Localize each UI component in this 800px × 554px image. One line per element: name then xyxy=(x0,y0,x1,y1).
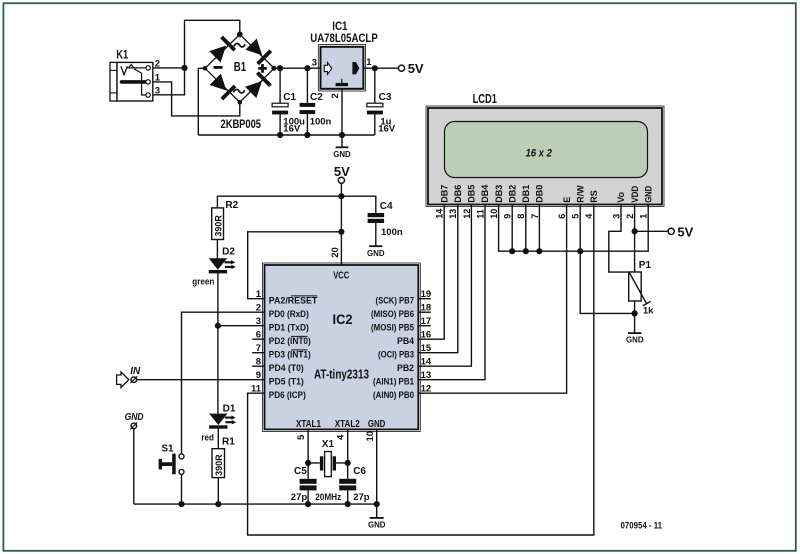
wire P1 bottom to ground xyxy=(634,301,636,333)
svg-text:(SCK) PB7: (SCK) PB7 xyxy=(376,295,415,305)
wire IC2 pin16 PB4 to LCD DB7 xyxy=(418,205,444,340)
wire B1 minus to ground rail xyxy=(198,68,205,135)
svg-text:GND: GND xyxy=(643,185,653,202)
svg-text:RS: RS xyxy=(589,190,599,203)
capacitor C6 xyxy=(339,466,370,503)
svg-text:1: 1 xyxy=(155,73,161,84)
svg-text:7: 7 xyxy=(530,214,540,219)
svg-text:R/W: R/W xyxy=(575,185,585,203)
wire IC2 pin11 PD6 to LCD RS xyxy=(248,205,594,536)
svg-text:4: 4 xyxy=(584,214,594,219)
microcontroller IC2 xyxy=(251,247,432,441)
ground below P1 xyxy=(626,333,644,345)
svg-text:GND: GND xyxy=(368,519,386,529)
svg-text:16V: 16V xyxy=(378,124,396,135)
svg-text:XTAL2: XTAL2 xyxy=(335,418,360,430)
svg-text:C4: C4 xyxy=(380,201,393,212)
svg-text:PD4 (T0): PD4 (T0) xyxy=(269,363,304,373)
svg-text:GND: GND xyxy=(367,248,385,258)
svg-text:3: 3 xyxy=(256,316,261,327)
svg-text:19: 19 xyxy=(421,289,432,300)
wire LCD R/W to P1 ground node xyxy=(580,205,634,314)
capacitor C2 xyxy=(300,92,332,127)
svg-text:PD6 (ICP): PD6 (ICP) xyxy=(269,390,306,400)
svg-text:5V: 5V xyxy=(334,164,350,179)
svg-text:IC1: IC1 xyxy=(332,19,347,33)
wire IC2 pin12 PB0 to LCD E xyxy=(418,205,566,394)
resistor R1 xyxy=(212,437,235,478)
wire LCD DB2 lead xyxy=(511,205,513,252)
wire IC1 pin2 to ground xyxy=(341,89,343,148)
svg-text:14: 14 xyxy=(421,357,432,368)
svg-text:1: 1 xyxy=(256,289,262,300)
svg-text:15: 15 xyxy=(421,343,432,354)
svg-text:6: 6 xyxy=(557,214,567,219)
svg-text:IN: IN xyxy=(130,366,141,377)
svg-text:070954 - 11: 070954 - 11 xyxy=(621,520,663,531)
svg-text:5: 5 xyxy=(571,214,581,219)
wire K1 pin2 to AC junction xyxy=(150,67,184,69)
wire R1 bottom to ground bus xyxy=(217,478,219,505)
svg-text:PD2 (INT0): PD2 (INT0) xyxy=(269,336,311,346)
wire capacitor C1 leads xyxy=(279,68,281,135)
svg-text:8: 8 xyxy=(256,357,261,368)
svg-text:13: 13 xyxy=(421,370,432,381)
wire 5V rail to R2 xyxy=(217,195,341,197)
wire 5V terminal to IC2 VCC pin 20 xyxy=(340,183,342,265)
capacitor C3 xyxy=(367,92,396,134)
svg-text:100n: 100n xyxy=(310,117,332,128)
svg-text:PD5 (T1): PD5 (T1) xyxy=(269,376,304,386)
svg-text:(MOSI) PB5: (MOSI) PB5 xyxy=(371,322,414,332)
svg-text:1: 1 xyxy=(639,214,649,219)
svg-text:C5: C5 xyxy=(294,466,307,477)
svg-text:DB4: DB4 xyxy=(480,185,490,203)
svg-text:16 x 2: 16 x 2 xyxy=(525,148,552,160)
wire VDD node to 5V terminal xyxy=(635,230,668,232)
capacitor C4 xyxy=(368,201,403,238)
wire K1 pin1 to B1 bottom vertex xyxy=(150,82,240,116)
IC2 pin17 stub xyxy=(418,325,431,327)
ground below IC1 pin2 xyxy=(333,147,351,159)
svg-text:E: E xyxy=(562,197,572,203)
svg-text:4: 4 xyxy=(336,434,347,440)
svg-text:11: 11 xyxy=(251,384,262,395)
svg-text:1k: 1k xyxy=(643,305,654,316)
svg-text:R2: R2 xyxy=(225,200,238,211)
svg-text:16: 16 xyxy=(421,330,432,341)
svg-text:PD0 (RxD): PD0 (RxD) xyxy=(269,309,309,319)
wire GND terminal lead xyxy=(133,429,135,504)
ground below IC2 pin10 xyxy=(368,518,386,530)
resistor R2 xyxy=(212,200,239,240)
svg-text:PB2: PB2 xyxy=(397,363,414,373)
svg-text:PD1 (TxD): PD1 (TxD) xyxy=(269,322,309,332)
svg-text:27p: 27p xyxy=(353,492,370,503)
LCD module LCD1 xyxy=(426,92,664,219)
svg-text:13: 13 xyxy=(448,209,458,219)
svg-text:DB5: DB5 xyxy=(467,185,477,203)
svg-text:(OCI) PB3: (OCI) PB3 xyxy=(378,349,414,359)
svg-text:10: 10 xyxy=(489,209,499,219)
svg-text:C3: C3 xyxy=(379,92,392,103)
wire IC2 XTAL2 pin4 lead xyxy=(347,429,349,504)
wire IN terminal to IC2 pin9 PD5 xyxy=(137,379,265,381)
svg-text:6: 6 xyxy=(256,330,261,341)
IC2 pin19 stub xyxy=(418,298,431,300)
svg-text:IC2: IC2 xyxy=(333,312,353,327)
wire AC junction top loop to B1 top vertex xyxy=(185,20,240,68)
5V terminal MCU supply xyxy=(334,164,350,183)
voltage regulator IC1 xyxy=(310,19,378,99)
svg-text:GND: GND xyxy=(333,149,351,159)
wire 5V to C4 xyxy=(341,196,375,246)
svg-text:DB3: DB3 xyxy=(494,185,504,203)
svg-text:XTAL1: XTAL1 xyxy=(296,418,321,430)
svg-text:PD3 (INT1): PD3 (INT1) xyxy=(269,349,311,359)
svg-text:PA2/RESET: PA2/RESET xyxy=(269,295,318,305)
svg-text:red: red xyxy=(201,432,214,443)
svg-text:(MISO) PB6: (MISO) PB6 xyxy=(371,309,414,319)
svg-text:UA78L05ACLP: UA78L05ACLP xyxy=(310,33,378,45)
svg-text:P1: P1 xyxy=(639,260,652,271)
wire D2 cathode through PD1 node down to D1 anode xyxy=(217,273,219,414)
wire K1 pin3 tie to pin2 xyxy=(150,68,184,95)
IC2 pin8 stub xyxy=(252,365,264,367)
wire IC2 GND pin10 to ground xyxy=(376,429,378,518)
svg-text:20MHz: 20MHz xyxy=(315,492,341,503)
svg-text:K1: K1 xyxy=(116,49,128,61)
svg-text:17: 17 xyxy=(421,316,432,327)
connector K1 xyxy=(110,49,161,101)
svg-text:DB2: DB2 xyxy=(507,185,517,203)
wire bottom ground bus xyxy=(134,503,377,505)
svg-text:(AIN0) PB0: (AIN0) PB0 xyxy=(373,390,414,400)
svg-text:9: 9 xyxy=(503,214,513,219)
5V terminal LCD supply xyxy=(668,224,694,239)
svg-text:LCD1: LCD1 xyxy=(473,92,497,106)
svg-text:D1: D1 xyxy=(223,404,236,415)
svg-text:VDD: VDD xyxy=(630,185,640,202)
GND terminal xyxy=(125,412,144,429)
svg-text:(AIN1) PB1: (AIN1) PB1 xyxy=(373,376,414,386)
svg-text:12: 12 xyxy=(421,384,432,395)
IC2 pin6 stub xyxy=(252,338,264,340)
wire R2 bottom to D2 anode xyxy=(216,240,218,259)
wire IC2 XTAL1 pin5 lead xyxy=(307,429,309,504)
wire LCD DB0 lead xyxy=(538,205,540,252)
wire LCD Vo to P1 wiper xyxy=(609,205,629,273)
bridge rectifier B1 xyxy=(205,32,276,132)
svg-text:VCC: VCC xyxy=(333,269,349,281)
svg-text:3: 3 xyxy=(611,214,621,219)
wire PD1 node to IC2 pin3 xyxy=(218,325,265,327)
svg-text:C1: C1 xyxy=(283,92,296,103)
wire IC2 pin15 PB3 to LCD DB6 xyxy=(418,205,458,353)
svg-text:PB4: PB4 xyxy=(397,336,414,346)
wire IC2 pin13 PB1 to LCD DB4 xyxy=(418,205,485,380)
svg-text:X1: X1 xyxy=(322,439,335,450)
svg-text:390R: 390R xyxy=(214,454,224,476)
svg-text:2: 2 xyxy=(155,59,160,70)
wire IC2 pin14 PB2 to LCD DB5 xyxy=(418,205,471,367)
pushbutton S1 xyxy=(159,443,184,474)
LED D2 xyxy=(192,247,236,288)
svg-text:18: 18 xyxy=(421,303,432,314)
svg-text:5V: 5V xyxy=(408,61,424,76)
svg-text:20: 20 xyxy=(330,247,341,258)
svg-text:DB0: DB0 xyxy=(535,185,545,203)
wire 5V to IC2 pin1 RESET xyxy=(248,232,342,299)
wire ground rail top section xyxy=(198,134,374,136)
svg-text:9: 9 xyxy=(256,370,261,381)
svg-text:12: 12 xyxy=(462,209,472,219)
svg-text:green: green xyxy=(192,277,214,288)
svg-text:1: 1 xyxy=(366,57,372,68)
svg-text:8: 8 xyxy=(516,214,526,219)
svg-text:16V: 16V xyxy=(283,124,301,135)
svg-text:GND: GND xyxy=(368,418,386,430)
IC2 pin18 stub xyxy=(418,311,431,313)
capacitor C1 xyxy=(272,92,305,134)
svg-text:14: 14 xyxy=(435,209,445,219)
ground below C4 xyxy=(367,246,385,258)
wire capacitor C2 leads xyxy=(306,68,308,135)
svg-text:3: 3 xyxy=(312,57,317,68)
svg-text:2KBP005: 2KBP005 xyxy=(221,117,262,131)
wire LCD DB3 to ground bus and LCD GND pin xyxy=(499,205,649,252)
wire S1 top contact to IC2 pin2 PD0 xyxy=(182,312,265,454)
svg-text:3: 3 xyxy=(155,86,160,97)
svg-text:5V: 5V xyxy=(677,224,693,239)
svg-text:GND: GND xyxy=(125,412,144,423)
svg-text:7: 7 xyxy=(256,343,261,354)
wire R2 top lead xyxy=(216,196,218,208)
svg-text:2: 2 xyxy=(330,93,341,98)
crystal X1 xyxy=(320,439,336,477)
wire LCD DB1 lead xyxy=(525,205,527,252)
wire B1 plus to IC1 pin3 xyxy=(274,67,321,69)
wire D1 cathode to R1 xyxy=(217,429,219,449)
IN terminal xyxy=(117,366,141,388)
svg-text:GND: GND xyxy=(626,335,644,345)
capacitor C5 xyxy=(291,466,317,503)
svg-text:DB7: DB7 xyxy=(439,185,449,203)
svg-text:DB1: DB1 xyxy=(521,185,531,203)
svg-text:11: 11 xyxy=(475,209,485,219)
svg-text:100n: 100n xyxy=(381,227,403,238)
wire LCD VDD to P1 top xyxy=(634,205,636,273)
potentiometer P1 xyxy=(629,260,654,317)
svg-text:DB6: DB6 xyxy=(453,185,463,203)
wire capacitor C3 leads xyxy=(374,68,376,135)
wire S1 bottom contact to ground bus xyxy=(181,474,183,504)
svg-text:D2: D2 xyxy=(222,247,235,258)
svg-text:10: 10 xyxy=(365,431,376,442)
wire IC1 pin1 to 5V terminal xyxy=(363,67,398,69)
svg-text:B1: B1 xyxy=(234,60,246,74)
svg-text:5: 5 xyxy=(296,434,307,440)
svg-text:AT-tiny2313: AT-tiny2313 xyxy=(314,367,369,382)
IC2 pin7 stub xyxy=(252,352,264,354)
wire crystal X1 side leads xyxy=(308,462,348,464)
LED D1 xyxy=(201,404,236,444)
svg-text:R1: R1 xyxy=(222,437,235,448)
svg-text:C6: C6 xyxy=(353,466,366,477)
svg-text:Vo: Vo xyxy=(616,191,626,202)
5V terminal regulator output xyxy=(398,61,424,76)
svg-text:390R: 390R xyxy=(213,215,223,237)
svg-text:27p: 27p xyxy=(291,492,308,503)
svg-text:C2: C2 xyxy=(310,92,323,103)
svg-text:2: 2 xyxy=(625,214,635,219)
svg-text:2: 2 xyxy=(256,303,261,314)
svg-text:S1: S1 xyxy=(161,443,174,454)
